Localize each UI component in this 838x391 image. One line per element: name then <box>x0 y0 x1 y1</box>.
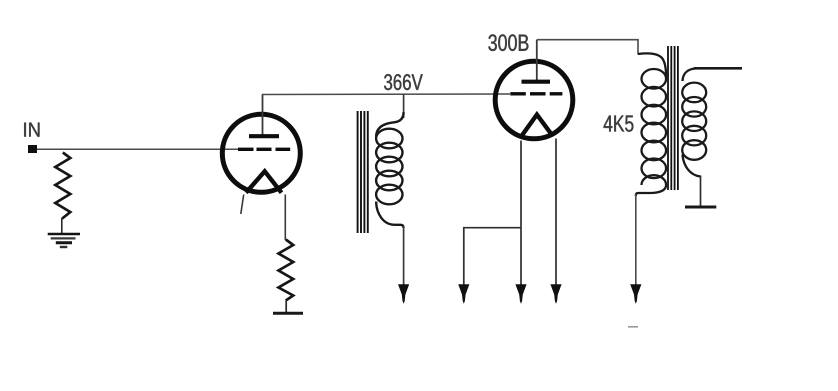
wire secondary bottom lead <box>700 176 702 207</box>
transformer T1 core <box>668 46 678 190</box>
label 4K5 <box>604 116 634 132</box>
V1 grid <box>238 148 290 151</box>
V1 cathode filament <box>246 171 282 192</box>
tube 300B envelope <box>495 61 573 139</box>
V1 filament stub <box>241 195 244 215</box>
wire R2 bottom lead <box>285 300 287 313</box>
tube 300B label <box>488 34 528 51</box>
triode V1 envelope <box>222 114 300 192</box>
wire 300B filament right lead <box>555 139 557 287</box>
arrow filament supply B <box>515 284 526 304</box>
ground (input) <box>48 234 80 247</box>
wire 300B filament left lead <box>520 141 522 287</box>
wire filament branch <box>464 228 521 286</box>
300B plate <box>522 80 551 84</box>
wire choke bottom lead to supply arrow <box>403 226 405 286</box>
wire plate bus 366V: V1 plate to 300B grid <box>262 93 510 96</box>
300B filament cathode <box>522 115 553 136</box>
supply arrow choke B+ <box>398 284 409 304</box>
wire R1 bottom lead <box>61 218 63 233</box>
wire 300B plate to output transformer <box>537 40 638 55</box>
transformer T1 secondary winding <box>682 68 706 176</box>
transformer T1 primary winding <box>636 53 666 196</box>
node label 366V <box>384 74 423 90</box>
R2 bottom terminal bar <box>273 312 303 315</box>
V1 plate lead riser <box>262 95 264 137</box>
choke L1 winding <box>376 112 404 228</box>
ground (secondary) <box>685 206 716 209</box>
arrow filament supply C <box>550 284 561 304</box>
300B grid <box>510 92 562 95</box>
wire V1 cathode to R2 <box>284 195 286 241</box>
arrow filament supply A <box>458 284 469 304</box>
choke L1 top lead <box>403 94 405 118</box>
wire primary bottom to B+ arrow <box>635 194 637 286</box>
arrow B+ primary <box>630 284 641 304</box>
input terminal node <box>28 145 37 153</box>
node IN label <box>24 123 39 137</box>
wire secondary top output lead <box>694 67 742 70</box>
300B plate lead riser <box>536 40 538 82</box>
resistor R2 cathode resistor <box>279 240 294 301</box>
choke L1 core <box>358 111 368 233</box>
wire IN to V1 grid <box>37 148 239 150</box>
resistor R1 input grid resistor <box>55 153 70 219</box>
V1 plate <box>249 134 279 138</box>
